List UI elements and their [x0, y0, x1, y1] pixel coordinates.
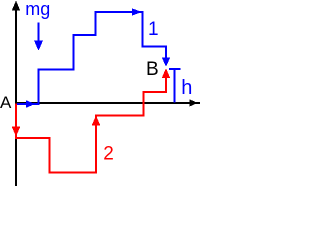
svg-text:1: 1: [148, 19, 159, 40]
svg-text:2: 2: [103, 144, 114, 165]
path 1 end arrowhead (down at B): [162, 57, 171, 67]
svg-text:h: h: [181, 77, 192, 99]
mg force arrow (down): [38, 23, 40, 47]
h bracket (blue): [169, 68, 181, 70]
path 2 direction arrowhead up: [92, 116, 101, 126]
svg-text:B: B: [146, 59, 159, 80]
path 1 staircase (blue): [17, 12, 166, 104]
path 2 staircase (red): [16, 71, 166, 173]
horizontal axis: [15, 102, 200, 104]
path 2 end arrowhead (up at B): [162, 68, 171, 78]
horizontal axis arrowhead: [190, 99, 198, 106]
svg-text:mg: mg: [25, 0, 50, 19]
path 1 direction arrowhead on top segment: [132, 8, 142, 16]
vertical axis: [15, 3, 17, 186]
path 2 arrowhead down from A: [12, 127, 21, 137]
vertical axis arrowhead: [12, 1, 20, 11]
svg-text:A: A: [0, 93, 12, 112]
path 1 direction arrowhead on axis: [26, 100, 35, 108]
